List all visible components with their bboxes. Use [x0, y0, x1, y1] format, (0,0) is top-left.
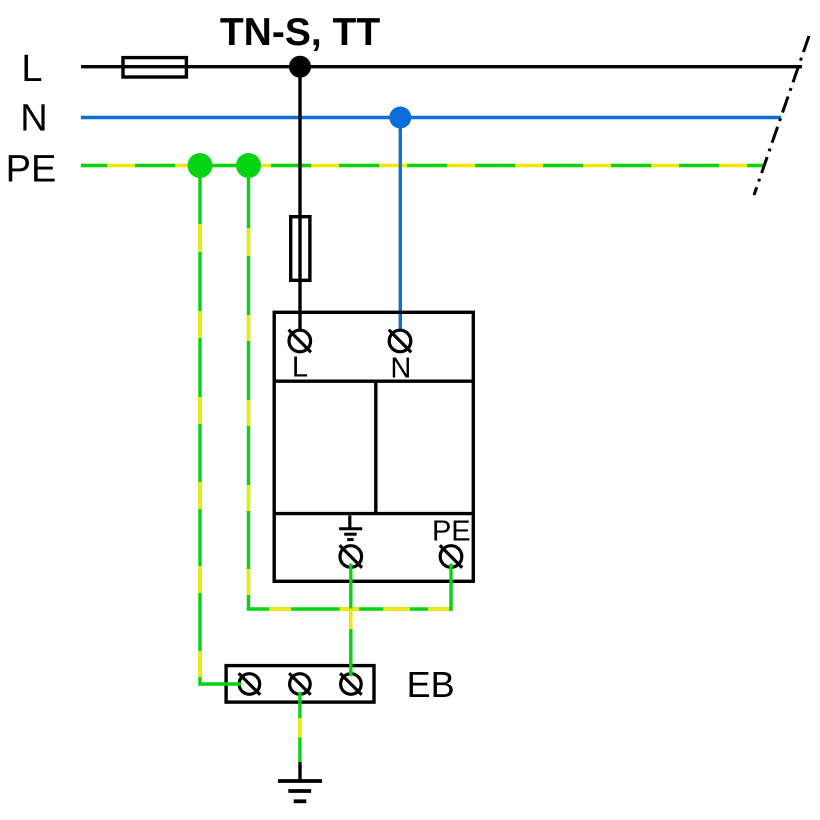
terminal L of SPD — [289, 330, 311, 352]
terminal PE of SPD — [440, 545, 462, 567]
wire EB middle terminal down to earth — [298, 692, 301, 762]
terminal EB 2 — [289, 673, 311, 695]
fuse F2 (vertical) — [291, 217, 310, 281]
svg-text:L: L — [21, 48, 42, 90]
wire PE2 vertical (green/yellow) — [247, 166, 250, 611]
wire SPD PE terminal down to bus — [449, 564, 452, 611]
SPD divider 1 — [273, 380, 476, 383]
wire SPD ground terminal down to EB terminal 3 — [349, 564, 352, 677]
wire N line — [81, 116, 781, 119]
terminal N of SPD — [389, 330, 411, 352]
terminal EB 3 — [340, 673, 362, 695]
junction node PE 1 — [188, 153, 213, 178]
SPD divider 2 — [273, 512, 476, 515]
wire from N node down — [399, 118, 402, 332]
fuse F1 (horizontal, on L) — [123, 58, 186, 77]
svg-text:L: L — [292, 352, 308, 384]
junction node on L — [289, 56, 311, 78]
junction node on N — [389, 107, 411, 129]
wire PE1 vertical (green/yellow) — [198, 166, 201, 686]
wire from L node down — [298, 67, 301, 331]
svg-text:PE: PE — [6, 149, 57, 191]
svg-text:TN-S, TT: TN-S, TT — [220, 11, 380, 54]
svg-text:EB: EB — [407, 664, 455, 705]
junction node PE 2 — [236, 153, 261, 178]
earth ground symbol — [278, 762, 322, 801]
ground symbol inside SPD — [339, 516, 362, 540]
SPD middle vertical divider — [374, 381, 377, 513]
SPD box U1 — [274, 312, 473, 581]
wire horizontal bus — [247, 607, 453, 610]
svg-text:PE: PE — [432, 516, 471, 548]
terminal ground of SPD — [340, 545, 362, 567]
wire L line — [81, 65, 802, 68]
wire PE line (green/yellow) — [81, 164, 764, 167]
EB box — [226, 666, 374, 703]
terminal EB 1 — [239, 673, 261, 695]
break symbol (dash-dot diagonal) — [754, 36, 809, 195]
wire PE1 horizontal into EB — [198, 682, 241, 685]
svg-text:N: N — [20, 98, 47, 140]
svg-text:N: N — [390, 352, 411, 384]
